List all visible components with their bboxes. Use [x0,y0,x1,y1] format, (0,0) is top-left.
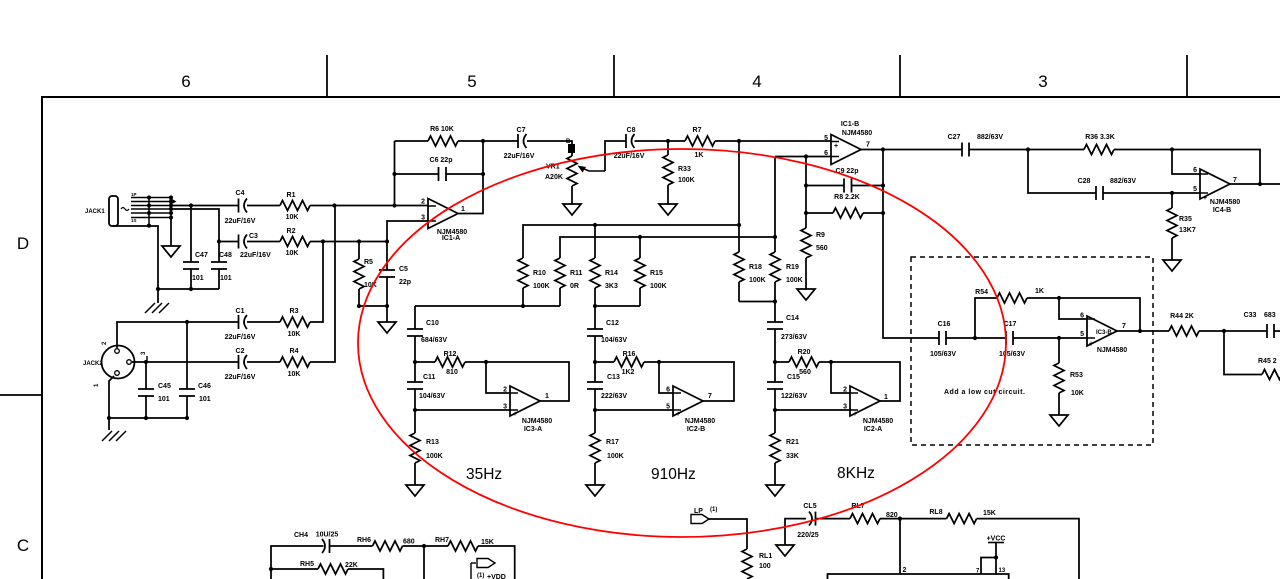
svg-text:C8: C8 [627,127,636,134]
op-amp IC2-B [673,386,703,416]
tick col 4/3 [899,55,901,97]
wire LP to RL1 [709,519,747,549]
svg-text:22K: 22K [345,562,358,569]
wire wiper to C8 [605,141,626,171]
svg-text:122/63V: 122/63V [781,393,807,400]
capacitor CL5 [809,512,816,526]
resistor R2 [280,237,310,247]
capacitor C27 [962,143,969,157]
svg-text:R35: R35 [1179,216,1192,223]
svg-text:C3: C3 [249,233,258,240]
svg-text:+VCC: +VCC [987,536,1006,543]
wire pin1 down [109,376,114,418]
svg-text:100K: 100K [678,177,695,184]
wire IC2-A feedback [831,362,900,401]
node R54 riser [973,336,977,340]
wire pin6 IC4-B [1172,150,1200,175]
svg-text:6: 6 [666,387,670,394]
ground stem CL5 [785,519,806,545]
node output [881,147,885,151]
node pin6 riser [1170,147,1174,151]
wire C17 to pin5 [1013,337,1087,339]
ground under JACK1 contacts [170,218,172,246]
resistor R21 [774,410,776,485]
svg-text:2: 2 [421,199,425,206]
svg-text:R11: R11 [570,270,583,277]
svg-text:104/63V: 104/63V [601,337,627,344]
svg-text:IC2-A: IC2-A [864,426,882,433]
resistor R33 [667,141,669,204]
wire pin3 to C2 row [132,361,239,363]
node pin2 riser [898,517,902,521]
svg-text:0R: 0R [570,283,579,290]
node C46 top [185,320,189,324]
wire JACK1 sleeve to C47 node [113,226,158,289]
tick col 5/4 [613,55,615,97]
capacitor C45 [145,362,147,418]
resistor R19 [770,252,780,282]
resistor R35 [1171,193,1173,260]
wire bus1 [523,141,739,258]
svg-text:RH5: RH5 [300,561,314,568]
svg-text:NJM4580: NJM4580 [863,418,893,425]
wire R54 to pin6 [1027,298,1087,319]
svg-text:C47: C47 [195,252,208,259]
node C5 top [385,239,389,243]
JACK1 contact junction dots [147,195,151,199]
wire pin3 IC3-A [415,409,510,411]
svg-text:R12: R12 [444,351,457,358]
svg-text:1P: 1P [131,192,137,197]
svg-text:C: C [17,536,29,555]
wire C33 out [1274,330,1280,332]
wire pin6 vertical chain [805,157,807,229]
svg-text:105/63V: 105/63V [930,351,956,358]
svg-text:R6 10K: R6 10K [430,126,454,133]
svg-text:R21: R21 [786,439,799,446]
connector JACK1 sleeve [109,196,118,226]
wire pin3 IC2-A [775,409,850,411]
wire pin2 riser [899,519,901,574]
wire RL7 to RL8 [880,518,947,520]
JACK2 pin 2 [115,349,120,354]
LP tag [691,515,709,524]
wire R6 to C7 [483,140,518,142]
svg-text:NJM4580: NJM4580 [1210,199,1240,206]
wire C47 C48 bottom tie [158,288,219,290]
svg-text:8KHz: 8KHz [837,465,875,482]
wire RH7 down right [478,546,515,579]
svg-text:5: 5 [467,72,476,91]
svg-text:C6 22p: C6 22p [430,157,453,164]
svg-text:22uF/16V: 22uF/16V [614,153,645,160]
resistor R5 [358,242,360,307]
svg-text:22uF/16V: 22uF/16V [240,252,271,259]
capacitor C9 [806,185,883,187]
resistor RH7 [448,541,478,551]
svg-text:C45: C45 [158,383,171,390]
svg-text:4: 4 [752,72,761,91]
svg-text:220/25: 220/25 [797,532,819,539]
svg-text:R54: R54 [975,289,988,296]
hatched ground below C47 [157,289,159,303]
wire R3 up to R2 row [310,242,323,323]
node R35 top [1170,191,1174,195]
wire R14 R15 bottom tie [595,305,640,307]
svg-text:104/63V: 104/63V [419,393,445,400]
wire jack main out row1 [171,205,239,207]
resistor R44 [1169,326,1199,336]
op-amp IC1-B [831,135,861,165]
node R3 join [321,239,325,243]
svg-text:101: 101 [199,396,211,403]
resistor R20 [775,361,831,363]
svg-text:Add a low cut circuit.: Add a low cut circuit. [944,389,1025,396]
svg-text:+: + [1089,341,1093,348]
svg-text:10K: 10K [1071,390,1084,397]
svg-text:+: + [676,411,680,418]
node feedback tap [392,203,396,207]
svg-text:882/63V: 882/63V [977,134,1003,141]
svg-text:7: 7 [708,393,712,400]
wire bus2 riser [774,157,776,253]
svg-text:22uF/16V: 22uF/16V [504,153,535,160]
svg-text:NJM4580: NJM4580 [522,418,552,425]
wire C3 to R2 [247,241,280,243]
svg-text:C16: C16 [938,321,951,328]
wire pin2 IC2-A [831,362,850,393]
capacitor C6 [395,173,484,175]
svg-text:6: 6 [1080,313,1084,320]
wire C28 to pin5 [1103,192,1200,194]
wire IC1-B output [861,149,962,151]
wire C7 to B terminal [527,141,572,144]
svg-text:C14: C14 [786,315,799,322]
svg-text:1K2: 1K2 [622,369,635,376]
svg-text:7: 7 [866,142,870,149]
wire IC4-B output [1230,183,1280,185]
svg-text:22uF/16V: 22uF/16V [225,374,256,381]
svg-text:1K: 1K [1035,288,1044,295]
svg-text:810: 810 [446,369,458,376]
svg-text:C11: C11 [423,374,436,381]
tick col 3/2 [1186,55,1188,97]
svg-text:A20K: A20K [545,174,563,181]
svg-text:5: 5 [1080,331,1084,338]
svg-text:100: 100 [759,563,771,570]
svg-text:NJM4580: NJM4580 [842,130,872,137]
ground below R35 [1163,260,1181,271]
resistor RL1 [742,549,752,579]
node C14 bottom [773,360,777,364]
capacitor CH4 [322,539,330,553]
wire R5 C5 bottom tie [359,305,387,307]
JACK2 pin 1 [115,371,120,376]
svg-text:2: 2 [503,387,507,394]
resistor R16 [595,361,659,363]
node bus1 riser [737,139,741,143]
ground below C5 [386,306,388,322]
ground below R13 [406,485,424,496]
svg-text:3K3: 3K3 [605,283,618,290]
svg-text:22p: 22p [399,279,411,286]
svg-text:10K: 10K [288,371,301,378]
svg-text:R19: R19 [786,264,799,271]
wire IC2-B feedback [659,362,734,401]
svg-text:IC1-A: IC1-A [442,235,460,242]
svg-text:NJM4580: NJM4580 [1097,347,1127,354]
svg-text:100K: 100K [749,277,766,284]
svg-text:C2: C2 [236,348,245,355]
svg-text:RH7: RH7 [435,537,449,544]
svg-text:3: 3 [421,215,425,222]
node C45 top [144,360,148,364]
node R5 top [357,239,361,243]
wire CH4 to RH6 [330,545,373,547]
svg-text:R5: R5 [364,259,373,266]
terminal B [568,144,575,153]
svg-text:R18: R18 [749,264,762,271]
resistor R17 [594,410,596,485]
svg-text:C13: C13 [607,374,620,381]
svg-text:C4: C4 [236,190,245,197]
svg-text:IC1-B: IC1-B [841,121,859,128]
wire output down to C16 [883,150,939,339]
node C15 bottom [773,408,777,412]
resistor R8 [806,212,883,214]
svg-text:JACK1: JACK1 [85,209,105,215]
IC box bottom [828,574,1009,579]
resistor RL7 [850,514,880,524]
wire R1 to IC1-A pin2 [310,205,428,207]
capacitor C5 [386,242,388,307]
hatched ground below JACK2 [108,418,110,430]
resistor R11 [555,258,565,288]
JACK1 contact arrow [166,199,176,205]
svg-text:JACK2: JACK2 [83,361,103,367]
svg-text:C5: C5 [399,266,408,273]
wire RH left riser [271,546,324,579]
wire IC3-A feedback [486,362,569,401]
node R20 right [829,360,833,364]
svg-text:560: 560 [816,245,828,252]
node R45 branch [1222,329,1226,333]
ground below R53 [1050,415,1068,426]
wire C8 to R7 [635,140,686,142]
svg-text:R16: R16 [623,351,636,358]
JACK1 contact stack [131,198,171,226]
node C6 right [481,172,485,176]
svg-text:10U/25: 10U/25 [316,532,339,539]
svg-text:5: 5 [666,404,670,411]
node C13 bottom [593,408,597,412]
VR1 wiper arrow [583,169,605,172]
svg-text:100K: 100K [533,283,550,290]
wire riser to R54 [975,298,997,338]
svg-text:B: B [566,139,571,145]
capacitor C4 [239,199,248,213]
svg-text:NJM4580: NJM4580 [685,418,715,425]
svg-text:+: + [853,411,857,418]
ground below VR1 [563,204,581,215]
wire jack contact to C3 row [171,209,219,242]
wire C27 to R36 [969,149,1084,151]
capacitor C12 [594,306,596,362]
capacitor C17 [1006,331,1013,345]
svg-text:CL5: CL5 [803,503,816,510]
capacitor C2 [239,355,248,369]
svg-text:R9: R9 [816,232,825,239]
svg-text:33K: 33K [786,453,799,460]
svg-text:3: 3 [843,404,847,411]
svg-text:C10: C10 [426,320,439,327]
svg-text:IC2-B: IC2-B [687,426,705,433]
svg-text:LP: LP [694,508,703,515]
node RH junction [422,544,426,548]
resistor R18 [738,225,740,252]
wire pin6 IC2-B [659,362,673,393]
capacitor C8 [626,134,635,148]
wire R10 R11 bottom tie [415,305,560,307]
svg-text:+: + [834,143,838,150]
node C10 bottom [413,360,417,364]
svg-text:1K: 1K [695,152,704,159]
capacitor C3 [219,241,239,243]
wire C1 to R3 [247,321,280,323]
svg-text:D: D [17,234,29,253]
svg-text:R53: R53 [1070,372,1083,379]
svg-text:5: 5 [1193,186,1197,193]
wire C2 to R4 [247,361,280,363]
svg-text:CH4: CH4 [294,532,308,539]
svg-text:R4: R4 [290,348,299,355]
wire R45 branch [1224,331,1262,375]
resistor R36 [1084,145,1114,155]
svg-text:C15: C15 [787,374,800,381]
resistor RH5 [271,568,318,570]
node C6 left [392,172,396,176]
svg-text:R8 2.2K: R8 2.2K [834,194,860,201]
wire R4 up to R1 row [310,206,335,363]
svg-text:R20: R20 [798,349,811,356]
svg-text:222/63V: 222/63V [601,393,627,400]
svg-text:13K7: 13K7 [1179,227,1196,234]
svg-text:273/63V: 273/63V [781,334,807,341]
svg-text:IC3-B: IC3-B [1096,330,1112,336]
svg-text:100K: 100K [607,453,624,460]
svg-text:101: 101 [158,396,170,403]
capacitor C46 [186,322,188,418]
svg-text:10K: 10K [286,250,299,257]
resistor R13 [414,410,416,485]
wire bus2 [560,237,775,258]
dashed box low cut [911,257,1153,445]
+VDD tag [471,562,476,564]
op-amp IC2-A [850,386,880,416]
svg-text:35Hz: 35Hz [466,466,502,483]
node C3 in [217,239,221,243]
op-amp IC4-B [1200,169,1230,199]
ground below R9 [797,289,815,300]
node C47 top [189,203,193,207]
svg-text:IC4-B: IC4-B [1213,207,1231,214]
svg-text:6: 6 [1193,167,1197,174]
svg-text:RL1: RL1 [759,553,772,560]
ground below R33 [659,204,677,215]
node R16 right [657,360,661,364]
svg-text:6: 6 [181,72,190,91]
resistor R3 [280,317,310,327]
node R6 right [481,139,485,143]
svg-text:R3: R3 [290,308,299,315]
op-amp IC1-A [428,199,458,229]
svg-text:R10: R10 [533,270,546,277]
resistor R54 [997,293,1027,303]
capacitor C1 [239,315,248,329]
wire pin3 riser [387,221,428,242]
resistor R10 [518,258,528,288]
wire pin6 stub [775,156,831,158]
capacitor C16 [939,331,946,345]
svg-text:R14: R14 [605,270,618,277]
capacitor C15 [774,362,776,410]
capacitor C13 [594,362,596,410]
node R33 top [666,139,670,143]
node C11 bottom [413,408,417,412]
svg-text:C1: C1 [236,308,245,315]
svg-text:C33: C33 [1244,312,1257,319]
svg-text:+: + [513,411,517,418]
resistor R7 [685,136,715,146]
svg-text:RH6: RH6 [357,537,371,544]
node pin6 [804,154,808,158]
svg-text:1: 1 [884,394,888,401]
svg-text:560: 560 [799,369,811,376]
svg-text:2: 2 [903,567,907,574]
svg-text:882/63V: 882/63V [1110,178,1136,185]
svg-text:101: 101 [220,275,232,282]
svg-text:100K: 100K [426,453,443,460]
wire RH6 to RH7 [403,545,449,547]
wire RL8 right down [977,519,1079,579]
wire IC3-B output and feedback [1059,298,1169,331]
svg-text:7: 7 [1233,177,1237,184]
svg-text:R45 2: R45 2 [1258,358,1277,365]
node R54 right [1057,296,1061,300]
capacitor C14 [774,302,776,363]
wire C4 to R1 [247,205,280,207]
wire pin2 to C1 row [117,322,239,348]
svg-text:910Hz: 910Hz [651,466,696,483]
op-amp IC3-A [510,386,540,416]
resistor R9 [801,228,811,258]
svg-text:10K: 10K [286,214,299,221]
node R12 right [484,360,488,364]
svg-text:R15: R15 [650,270,663,277]
wire R18 R19 bottom tie [739,301,775,303]
wire RH5 down [348,569,383,579]
red highlight ellipse [358,149,1006,537]
capacitor C33 [1267,324,1274,338]
svg-text:R44 2K: R44 2K [1170,313,1194,320]
resistor R1 [280,201,310,211]
resistor R6 [395,140,484,142]
node C28 branch [1026,147,1030,151]
capacitor C47 [190,206,192,290]
JACK1 tip mark [121,208,129,211]
capacitor C48 [218,242,220,290]
capacitor C7 [518,134,527,148]
